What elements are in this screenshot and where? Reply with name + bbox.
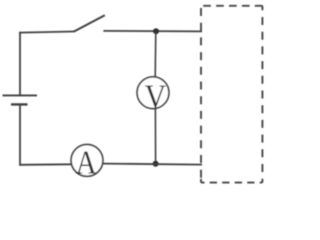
wire top-left horizontal xyxy=(19,32,74,33)
wire bottom-right horizontal xyxy=(103,164,202,165)
switch S (open blade) xyxy=(74,15,105,32)
node bottom junction xyxy=(153,161,159,167)
wire bottom-left horizontal xyxy=(19,163,71,166)
wire left vertical lower (battery to bottom corner) xyxy=(19,104,21,165)
voltmeter V xyxy=(137,77,169,115)
dashed box: right edge xyxy=(261,6,263,183)
dashed box: bottom-left corner piece xyxy=(200,179,202,183)
battery cell: long plate xyxy=(3,94,38,96)
dashed box: left edge xyxy=(200,6,202,183)
battery cell: short plate xyxy=(11,103,28,105)
dashed box (component placeholder): top edge xyxy=(201,5,262,7)
dashed box: bottom edge xyxy=(201,182,262,184)
wire voltmeter branch upper xyxy=(154,31,157,77)
wire top-right horizontal xyxy=(103,30,202,33)
wire voltmeter branch lower xyxy=(154,109,156,164)
node top junction xyxy=(153,28,159,34)
wire left vertical upper (corner to battery) xyxy=(19,32,21,96)
svg-text:A: A xyxy=(76,144,97,181)
ammeter A xyxy=(71,144,103,181)
